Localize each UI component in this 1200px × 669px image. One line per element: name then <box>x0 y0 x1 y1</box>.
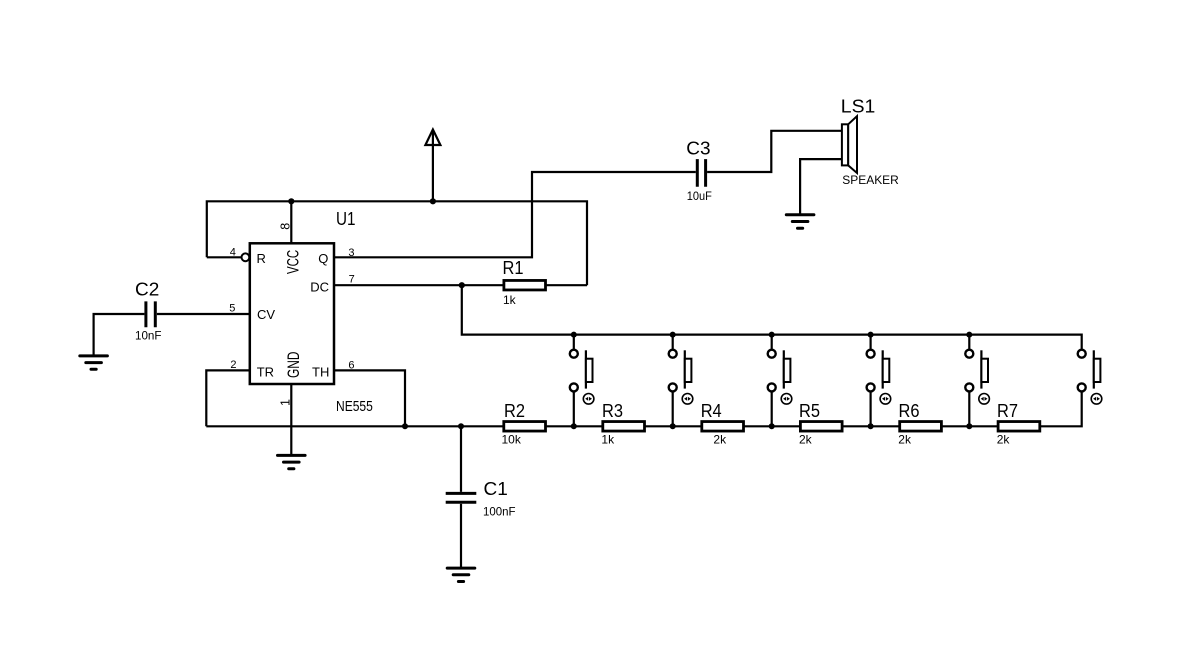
resistor R2 <box>504 422 546 432</box>
resistor R1 <box>504 280 546 290</box>
svg-text:LS1: LS1 <box>841 96 876 116</box>
capacitor C3 <box>697 159 705 187</box>
wire VCC top rail (pin4 loop, top bus, down to R1 right) <box>207 201 587 285</box>
svg-text:TH: TH <box>312 364 329 379</box>
power VCC arrow symbol <box>425 130 440 146</box>
wire C2 left to ground <box>94 314 145 355</box>
svg-text:3: 3 <box>348 247 354 259</box>
svg-text:1k: 1k <box>503 293 517 307</box>
svg-text:8: 8 <box>279 223 293 230</box>
svg-text:U1: U1 <box>336 209 356 229</box>
svg-text:GND: GND <box>284 352 303 379</box>
svg-text:Q: Q <box>318 251 328 266</box>
svg-text:R7: R7 <box>997 401 1018 421</box>
resistor R7 <box>998 422 1040 432</box>
svg-text:CV: CV <box>257 307 275 322</box>
ground (speaker) <box>786 215 814 228</box>
node junction pin8 on VCC rail <box>288 198 294 204</box>
svg-text:1k: 1k <box>601 433 615 447</box>
svg-text:R3: R3 <box>602 401 623 421</box>
svg-text:C1: C1 <box>484 479 508 499</box>
svg-text:NE555: NE555 <box>336 398 373 415</box>
pushbutton S1 <box>570 332 594 430</box>
resistor R6 <box>900 422 942 432</box>
svg-text:4: 4 <box>230 247 236 259</box>
wire VCC symbol stem <box>432 132 434 202</box>
pin bubble R (pin 4) <box>242 253 250 261</box>
svg-text:2k: 2k <box>799 433 813 447</box>
wire bottom rail <box>206 391 1081 426</box>
pushbutton S3 <box>768 332 792 430</box>
svg-text:C2: C2 <box>135 280 159 300</box>
wire pin 7 DC to R1 <box>334 284 504 286</box>
wire C3 to speaker top terminal <box>707 131 842 172</box>
svg-text:2k: 2k <box>898 433 912 447</box>
svg-text:10nF: 10nF <box>135 329 162 343</box>
wire pin 4 to reset bubble <box>207 256 242 258</box>
node junction pin7/R1/bus <box>459 282 465 288</box>
svg-text:2: 2 <box>230 359 236 371</box>
svg-text:R5: R5 <box>799 401 820 421</box>
svg-text:R1: R1 <box>503 258 524 278</box>
svg-text:2k: 2k <box>997 433 1011 447</box>
pushbutton S6 <box>1078 350 1102 404</box>
pushbutton S2 <box>669 332 693 430</box>
svg-text:100nF: 100nF <box>483 505 516 519</box>
resistor R4 <box>702 422 744 432</box>
node junction C1 on bottom rail <box>458 423 464 429</box>
capacitor C2 <box>146 301 155 327</box>
pushbutton S4 <box>867 332 891 430</box>
svg-text:C3: C3 <box>686 138 710 158</box>
resistor R3 <box>603 422 645 432</box>
wire R1 right to VCC rail vertical <box>546 284 588 286</box>
wire pin 5 CV to C2 <box>157 313 250 315</box>
svg-text:VCC: VCC <box>284 250 303 274</box>
ground (C1) <box>447 568 475 581</box>
svg-text:SPEAKER: SPEAKER <box>842 173 899 187</box>
svg-text:6: 6 <box>348 360 354 372</box>
svg-text:R4: R4 <box>701 401 722 421</box>
node junction VCC symbol on rail <box>430 198 436 204</box>
resistor R5 <box>800 422 842 432</box>
pushbutton S5 <box>965 332 989 430</box>
svg-text:10uF: 10uF <box>687 189 712 203</box>
svg-text:DC: DC <box>310 279 329 294</box>
ground (C2) <box>80 356 108 369</box>
wire pin 3 Q output to C3 <box>334 172 696 257</box>
svg-text:10k: 10k <box>502 433 522 447</box>
wire button bus from pin7 node <box>462 285 1082 350</box>
wire pin 1 GND stem <box>290 384 292 455</box>
ground (U1 pin 1) <box>278 455 306 468</box>
wire pin 6 TH loop <box>334 370 405 426</box>
speaker LS1 <box>842 116 857 173</box>
wire pin 8 stem <box>290 201 292 243</box>
wire pin 2 TR loop to bottom rail <box>206 370 250 426</box>
svg-text:2k: 2k <box>713 433 727 447</box>
svg-text:R: R <box>257 251 266 266</box>
op-amp U1 NE555 body <box>250 243 334 384</box>
svg-text:R2: R2 <box>504 401 525 421</box>
capacitor C1 <box>446 426 477 567</box>
svg-text:R6: R6 <box>899 401 920 421</box>
svg-text:5: 5 <box>229 303 235 315</box>
node junction TH on bottom rail <box>402 423 408 429</box>
wire speaker bottom terminal to ground <box>800 159 842 214</box>
svg-text:TR: TR <box>257 364 274 379</box>
svg-text:7: 7 <box>349 273 355 285</box>
